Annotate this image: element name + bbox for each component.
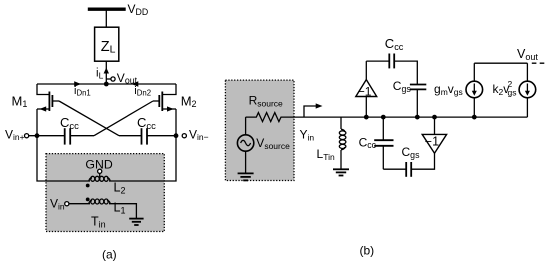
svg-text:iL: iL — [96, 68, 104, 81]
svg-text:gs: gs — [508, 87, 517, 97]
capacitor Cgs shunt — [393, 79, 427, 117]
current arrow iDn1 — [74, 81, 91, 97]
wire Vin+ down to L2 — [37, 136, 90, 181]
svg-text:(a): (a) — [102, 248, 117, 262]
capacitor Cgs series bottom — [402, 145, 421, 177]
node GND — [85, 158, 112, 180]
resistor Rsource — [246, 94, 294, 122]
junction dot Vout — [104, 82, 109, 87]
polarity dot L2 — [86, 184, 90, 188]
ground (a) — [129, 219, 143, 225]
current source k2 vgs^2 — [493, 63, 536, 117]
admittance arrow Yin — [300, 103, 323, 142]
wire cross-couple diagonal from M2 gate — [94, 101, 153, 136]
op-amp A2 (gain -1, pointing down) — [422, 117, 446, 153]
wire drain rail — [37, 83, 176, 85]
node Vin- — [174, 127, 209, 142]
node Vin — [50, 197, 90, 212]
inductor LTin — [317, 117, 346, 169]
ground Vsource — [238, 173, 254, 180]
wire Vin- down to L2 — [109, 136, 176, 181]
wire Cgs to amp A2 — [411, 153, 434, 169]
wire top branch right — [394, 61, 417, 84]
power rail VDD — [88, 7, 126, 10]
wire L1 to ground — [109, 204, 136, 218]
impedance ZL — [95, 27, 119, 61]
node Vout (b) — [517, 47, 547, 63]
source Vsource — [237, 117, 290, 173]
inductor L2 — [89, 176, 110, 181]
wire top branch left — [366, 60, 389, 62]
current arrow iDn2 — [132, 81, 152, 97]
op-amp A1 (gain -1, pointing up) — [356, 61, 377, 117]
capacitor Ccc right — [119, 115, 176, 145]
wire main line — [294, 116, 527, 118]
wire top output — [474, 62, 527, 64]
wire VDD to ZL — [105, 9, 107, 27]
wire bottom branch — [383, 168, 406, 170]
wire ZL to Vout node — [105, 61, 107, 84]
ground LTin — [333, 169, 349, 175]
wire cross-couple diagonal from M1 gate — [59, 101, 119, 136]
transistor M2 — [153, 84, 176, 136]
current arrow iL — [96, 68, 109, 81]
node Vout — [106, 71, 137, 86]
svg-text:(b): (b) — [360, 244, 375, 258]
capacitor Ccc left — [60, 115, 94, 145]
svg-text:−1: −1 — [425, 134, 439, 148]
transformer box Tin — [46, 154, 164, 232]
source box — [225, 80, 294, 180]
inductor L1 — [89, 199, 110, 204]
capacitor Ccc top — [385, 36, 404, 68]
capacitor Ccc shunt — [359, 117, 394, 169]
polarity dot L1 — [86, 198, 90, 202]
node Vin+ — [5, 127, 65, 142]
transistor M1 — [37, 84, 59, 136]
svg-text:−1: −1 — [358, 85, 372, 99]
current source gm vgs — [434, 63, 483, 117]
junction dots main line — [364, 115, 369, 120]
